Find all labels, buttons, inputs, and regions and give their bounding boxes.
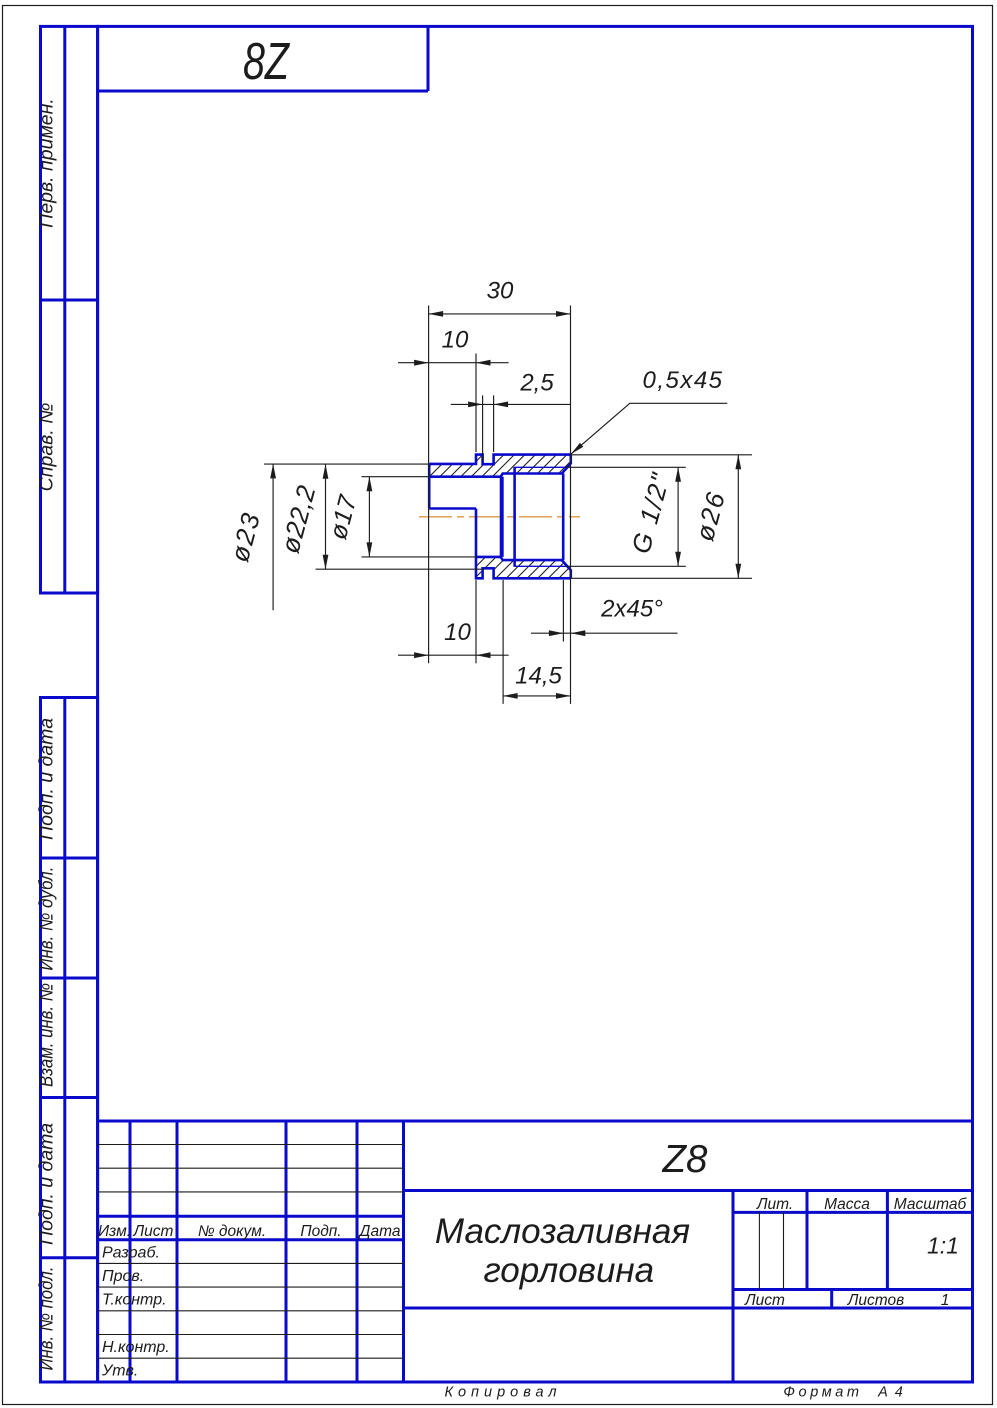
svg-text:Взам. инв. №: Взам. инв. №	[36, 983, 58, 1087]
svg-text:1:1: 1:1	[927, 1233, 959, 1259]
svg-text:Подп. и дата: Подп. и дата	[36, 1123, 58, 1245]
svg-text:Инв. № дубл.: Инв. № дубл.	[36, 867, 58, 971]
dim phi22,2	[275, 464, 484, 569]
chamfer callout 0,5x45	[571, 367, 728, 454]
svg-text:Изм.: Изм.	[98, 1223, 131, 1240]
thread major line top	[515, 466, 567, 468]
dim 10 bottom	[398, 580, 509, 663]
left margin block: Perv. primen.	[36, 26, 98, 593]
svg-text:Формат: Формат	[783, 1385, 862, 1401]
svg-text:Разраб.: Разраб.	[102, 1245, 160, 1262]
svg-text:2,5: 2,5	[519, 370, 554, 397]
svg-text:14,5: 14,5	[515, 663, 562, 690]
centerline axis	[419, 516, 580, 518]
dim phi17	[324, 477, 477, 557]
svg-text:Н.контр.: Н.контр.	[102, 1339, 170, 1356]
title block texts	[98, 1138, 968, 1401]
dim phi23	[224, 464, 429, 610]
part outline	[429, 455, 571, 477]
svg-text:Листов: Листов	[847, 1292, 904, 1309]
dim phi26	[571, 455, 752, 579]
svg-text:Копировал: Копировал	[444, 1385, 561, 1401]
svg-text:10: 10	[442, 327, 469, 354]
svg-text:Маслозаливная: Маслозаливная	[435, 1212, 690, 1251]
svg-text:А4: А4	[877, 1385, 910, 1401]
svg-text:1: 1	[941, 1292, 950, 1309]
svg-text:Лист: Лист	[133, 1223, 174, 1240]
svg-text:Справ. №: Справ. №	[36, 403, 58, 492]
left margin lower blocks	[36, 698, 98, 1383]
svg-text:Инв. № подл.: Инв. № подл.	[36, 1267, 58, 1371]
section hatching bottom	[295, 445, 724, 590]
drill bottom line	[500, 477, 504, 557]
thread major line bottom	[515, 565, 567, 567]
svg-text:10: 10	[444, 619, 471, 646]
svg-text:Подп.: Подп.	[300, 1223, 341, 1240]
svg-text:8Z: 8Z	[243, 33, 291, 91]
svg-text:Перв. примен.: Перв. примен.	[36, 98, 58, 228]
svg-text:Лит.: Лит.	[756, 1196, 793, 1213]
svg-text:0,5х45: 0,5х45	[642, 367, 723, 394]
dim 10 top	[398, 327, 509, 453]
dim 2,5	[451, 370, 571, 462]
dim 30	[429, 278, 571, 704]
svg-text:2х45°: 2х45°	[600, 596, 663, 623]
svg-text:Подп. и дата: Подп. и дата	[36, 718, 58, 840]
svg-text:горловина: горловина	[483, 1251, 654, 1290]
title block grid	[98, 1121, 973, 1382]
dim 14,5	[503, 580, 570, 704]
svg-text:№ докум.: № докум.	[198, 1223, 266, 1240]
svg-text:Дата: Дата	[358, 1223, 401, 1240]
dim G 1/2	[566, 467, 686, 566]
chamfer edge line	[562, 474, 565, 561]
svg-text:30: 30	[487, 278, 514, 305]
svg-text:Утв.: Утв.	[101, 1363, 138, 1380]
svg-text:Т.контр.: Т.контр.	[102, 1292, 167, 1309]
thread end line	[513, 467, 516, 567]
top designation box 8Z	[98, 26, 428, 91]
svg-text:Масштаб: Масштаб	[894, 1196, 968, 1213]
dim 2x45	[531, 580, 678, 642]
svg-text:Масса: Масса	[824, 1196, 870, 1213]
svg-text:Z8: Z8	[662, 1138, 709, 1181]
svg-text:Лист: Лист	[744, 1292, 785, 1309]
svg-text:Пров.: Пров.	[102, 1268, 144, 1285]
